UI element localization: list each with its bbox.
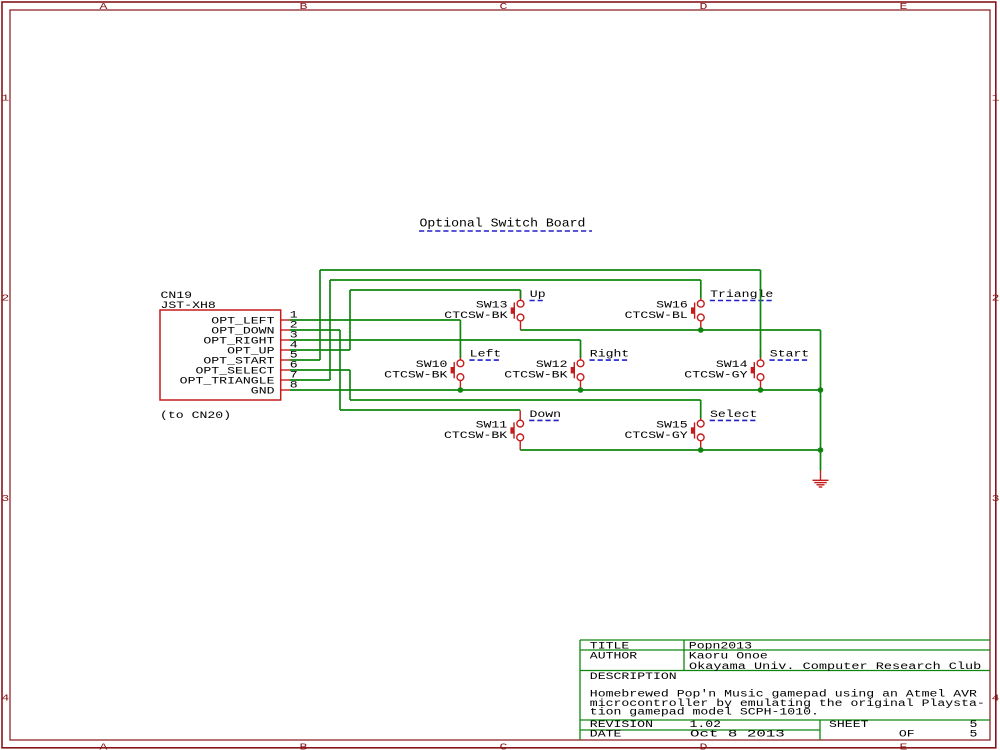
- svg-text:CTCSW-BL: CTCSW-BL: [625, 310, 688, 321]
- svg-text:Select: Select: [710, 409, 757, 420]
- svg-text:CTCSW-BK: CTCSW-BK: [384, 370, 447, 381]
- svg-text:3: 3: [1, 493, 9, 504]
- svg-text:Oct 8 2013: Oct 8 2013: [690, 729, 785, 740]
- svg-text:8: 8: [290, 380, 298, 391]
- svg-text:2: 2: [1, 293, 9, 304]
- svg-text:3: 3: [992, 493, 1000, 504]
- svg-text:Kaoru Onoe: Kaoru Onoe: [689, 650, 768, 661]
- svg-text:B: B: [300, 1, 309, 12]
- svg-text:Down: Down: [530, 409, 562, 420]
- svg-text:Left: Left: [470, 349, 502, 360]
- svg-text:Right: Right: [590, 349, 630, 360]
- svg-text:CTCSW-GY: CTCSW-GY: [684, 370, 747, 381]
- svg-text:tion gamepad model SCPH-1010.: tion gamepad model SCPH-1010.: [590, 706, 819, 717]
- svg-text:AUTHOR: AUTHOR: [590, 650, 638, 661]
- svg-text:4: 4: [1, 692, 10, 703]
- svg-text:5: 5: [970, 729, 978, 740]
- svg-text:1: 1: [1, 92, 10, 103]
- svg-text:Okayama Univ. Computer Resear: Okayama Univ. Computer Research Club: [689, 661, 981, 672]
- svg-text:4: 4: [992, 692, 1000, 703]
- svg-text:D: D: [700, 1, 709, 12]
- svg-text:OF: OF: [899, 729, 915, 740]
- svg-text:CTCSW-BK: CTCSW-BK: [504, 370, 567, 381]
- svg-text:Up: Up: [530, 289, 546, 300]
- svg-text:D: D: [700, 741, 709, 750]
- svg-text:E: E: [900, 741, 909, 750]
- svg-text:CTCSW-BK: CTCSW-BK: [444, 430, 507, 441]
- svg-text:JST-XH8: JST-XH8: [161, 300, 216, 311]
- svg-text:Optional Switch Board: Optional Switch Board: [420, 217, 586, 231]
- svg-text:CTCSW-GY: CTCSW-GY: [625, 430, 688, 441]
- svg-text:DATE: DATE: [590, 729, 622, 740]
- svg-text:SHEET: SHEET: [829, 719, 869, 730]
- svg-text:(to CN20): (to CN20): [160, 410, 231, 421]
- svg-text:GND: GND: [251, 385, 275, 396]
- svg-text:C: C: [500, 1, 509, 12]
- svg-text:Triangle: Triangle: [710, 289, 773, 300]
- svg-text:C: C: [500, 741, 509, 750]
- svg-text:1: 1: [992, 92, 1000, 103]
- svg-text:Start: Start: [770, 349, 810, 360]
- svg-text:A: A: [100, 741, 109, 750]
- svg-text:A: A: [100, 1, 109, 12]
- svg-text:DESCRIPTION: DESCRIPTION: [590, 671, 677, 682]
- svg-text:B: B: [300, 741, 309, 750]
- svg-text:E: E: [900, 1, 909, 12]
- svg-text:2: 2: [992, 293, 1000, 304]
